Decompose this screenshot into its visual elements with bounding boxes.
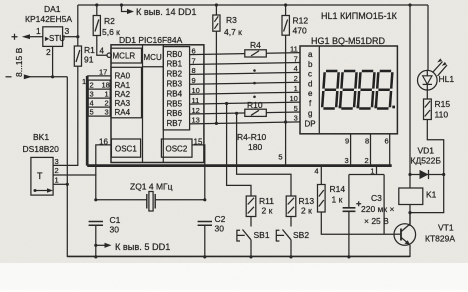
switch SB2	[290, 217, 292, 227]
wire BK1 pin1 to ground	[53, 183, 67, 185]
wire K1 bottom node	[409, 205, 411, 213]
crystal ZQ1	[130, 182, 173, 192]
RB sub-box	[163, 47, 189, 130]
wire R12 to DP row	[285, 35, 287, 122]
wire display pin 8 tap 2	[370, 134, 372, 166]
node junction arrow 14	[120, 3, 123, 6]
wire STU out to rail	[63, 36, 78, 38]
resistor R3	[215, 5, 217, 15]
diode VD1	[411, 146, 442, 166]
resistor R13	[286, 196, 296, 217]
LED HL1	[427, 5, 429, 70]
display pin numbers left	[289, 44, 297, 122]
capacitor C2	[198, 222, 212, 226]
wire STU pin2 down	[52, 46, 54, 76]
MCU DD1 label	[119, 35, 183, 45]
wire OSC1 pin16	[96, 145, 112, 200]
node junction R2 top	[95, 3, 98, 6]
wire BK1 pin2	[53, 174, 96, 176]
node decimal points	[339, 106, 342, 109]
transistor VT1	[394, 224, 416, 246]
wire node 1 horizontal	[349, 175, 384, 235]
wire tap 4 to R14	[320, 166, 322, 185]
node junction R12 top	[284, 3, 287, 6]
RA sub-box	[111, 67, 142, 118]
OSC1 box	[111, 139, 140, 157]
wire R2 to MCLR	[97, 36, 107, 56]
wire LED to R15	[426, 90, 428, 99]
paper noise	[0, 0, 1, 1]
wire + input	[28, 36, 43, 38]
wire RA0 pin17	[87, 75, 111, 77]
wire SB2 feed from row g	[235, 112, 238, 115]
wire ground drop left	[66, 77, 68, 257]
wire top rail to diode node	[409, 5, 411, 175]
wire minus input	[24, 76, 67, 78]
node HL1 type label	[321, 11, 398, 21]
wire R1 to BK1 pin3	[53, 66, 78, 165]
capacitor C3	[343, 208, 356, 212]
MCU center column	[143, 45, 164, 163]
node BK1 internal arrow	[34, 189, 37, 192]
display segment letters	[305, 50, 316, 128]
wire R3 to RB7 row	[215, 31, 217, 123]
resistor R15	[424, 99, 432, 120]
MCLR sub-box	[111, 48, 142, 63]
wire display pin 9 tap 3	[350, 134, 352, 166]
wire +5V top rail	[78, 4, 428, 6]
resistor R11	[246, 196, 256, 217]
microcontroller DD1 PIC16F84A outer box	[111, 45, 204, 163]
node ellipsis dots	[253, 69, 256, 72]
wire R14 to VT1 base	[321, 212, 395, 234]
sensor BK1	[31, 157, 53, 195]
node 8...15V label	[14, 47, 24, 77]
node arrow to pin 14 DD1	[122, 5, 129, 12]
wire tap 1	[376, 166, 378, 175]
switch SB1	[250, 217, 252, 227]
wire SB1 feed from row f	[225, 102, 228, 105]
wire K1 to VT1 collector	[409, 213, 411, 226]
display digits	[322, 71, 392, 109]
resistor R1	[77, 37, 79, 46]
wire top rail left drop to STU output	[77, 5, 79, 37]
regulator DA1 label	[25, 4, 72, 57]
display HG1 box	[300, 46, 397, 134]
wire display pin 6	[389, 134, 391, 166]
relay K1	[399, 188, 423, 205]
OSC2 box	[161, 139, 192, 157]
node connector cells	[88, 80, 110, 116]
resistor R12	[285, 5, 287, 16]
resistor R4	[245, 50, 266, 57]
pin numbers 6-13	[192, 46, 200, 124]
wire diode node to K1	[409, 175, 411, 189]
resistor R10	[245, 109, 266, 116]
node MCLR bubble	[107, 53, 111, 57]
node + input arrow	[22, 34, 30, 39]
wire DP tap 5	[284, 120, 287, 123]
node R4-R10 value label	[237, 132, 267, 152]
wire ground rail	[67, 255, 410, 257]
node junction minus rail	[51, 75, 54, 78]
node left wire bundle (bus)	[86, 76, 89, 166]
wire long bus horizontal	[87, 164, 392, 167]
node plus sign	[12, 34, 18, 40]
node junction VD1 branch	[408, 3, 411, 6]
resistor R2	[96, 5, 98, 16]
capacitor C1	[89, 222, 103, 226]
node junction R3 top	[215, 3, 218, 6]
node arrow to pin 5 DD1	[94, 244, 97, 247]
display HG1 label	[311, 36, 386, 46]
regulator DA1 КР142ЕН5А box	[43, 27, 63, 47]
node junction STU out	[76, 35, 79, 38]
wires segment rows a-g,DP	[190, 53, 300, 55]
node minus arrow	[24, 74, 32, 79]
wire OSC2 pin15	[192, 145, 205, 200]
wire R15 to diode cathode node	[427, 120, 443, 175]
node minus sign	[6, 76, 12, 78]
resistor R14	[318, 185, 326, 213]
